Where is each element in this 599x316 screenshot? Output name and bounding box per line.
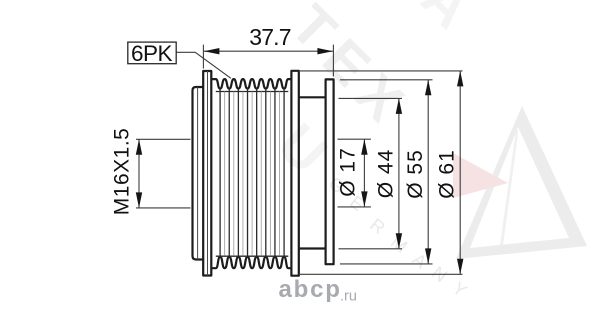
dia55 ext bottom — [340, 263, 433, 265]
dia44 ext top — [339, 97, 403, 99]
37.7 arrow left — [204, 48, 220, 54]
M16 arrow bottom — [136, 192, 142, 208]
37.7 arrow right — [317, 48, 333, 54]
svg-text:M16X1.5: M16X1.5 — [110, 128, 133, 216]
groove bottom wave — [211, 257, 291, 268]
dia61 arrow bottom — [457, 259, 463, 275]
dia17 ext bottom — [338, 206, 371, 208]
dia61 ext bottom — [299, 273, 463, 275]
svg-text:Ø 61: Ø 61 — [435, 149, 458, 199]
M16 arrow top — [136, 139, 142, 155]
dia17 arrow top — [361, 139, 367, 155]
svg-text:Ø 55: Ø 55 — [404, 149, 427, 199]
dia44 dim line — [398, 98, 400, 248]
svg-text:6PK: 6PK — [131, 41, 173, 66]
M16 ext top — [136, 138, 191, 140]
dia61 ext top — [299, 70, 463, 72]
svg-text:.ru: .ru — [340, 289, 357, 305]
groove root lines — [216, 92, 288, 257]
dia55 arrow bottom — [425, 248, 431, 264]
watermark GERMANY letters — [325, 173, 471, 301]
left flange inner line — [207, 71, 209, 276]
middle cylinder — [299, 96, 326, 98]
dia55 dim line — [427, 80, 429, 264]
right disc — [326, 79, 334, 264]
watermark AUTEX letters — [265, 0, 483, 186]
dia55 ext top — [340, 79, 433, 81]
watermark triangle logo — [453, 106, 587, 259]
dia17 ext top — [338, 138, 371, 140]
dia17 dim line — [363, 139, 365, 207]
leader 6PK — [176, 52, 231, 78]
M16 ext bottom — [136, 207, 191, 209]
dia55 arrow top — [425, 80, 431, 96]
collar — [193, 87, 204, 260]
M16 dim line — [138, 139, 140, 208]
groove top wave — [211, 79, 291, 89]
dia17 arrow bottom — [361, 191, 367, 207]
37.7 dim line — [204, 50, 333, 52]
dia44 ext bottom — [339, 248, 403, 250]
svg-text:abcp: abcp — [279, 276, 342, 303]
right flange — [291, 71, 298, 276]
dia44 arrow top — [396, 98, 402, 114]
svg-text:Ø 44: Ø 44 — [374, 149, 397, 199]
pulley part outline — [193, 71, 334, 276]
37.7 ext left — [202, 45, 204, 69]
6PK box — [128, 42, 176, 64]
abcp.ru logo — [279, 276, 357, 305]
groove rib edges — [225, 92, 280, 256]
dimension/extension lines — [136, 45, 463, 275]
collar chamfer line — [197, 87, 199, 260]
dia61 arrow top — [457, 71, 463, 87]
37.7 ext right — [332, 45, 334, 77]
svg-text:Ø 17: Ø 17 — [336, 147, 359, 197]
dia61 dim line — [459, 71, 461, 274]
dia44 arrow bottom — [396, 233, 402, 249]
groove valley edges — [220, 89, 284, 257]
left flange — [203, 71, 211, 276]
svg-text:37.7: 37.7 — [249, 24, 291, 50]
